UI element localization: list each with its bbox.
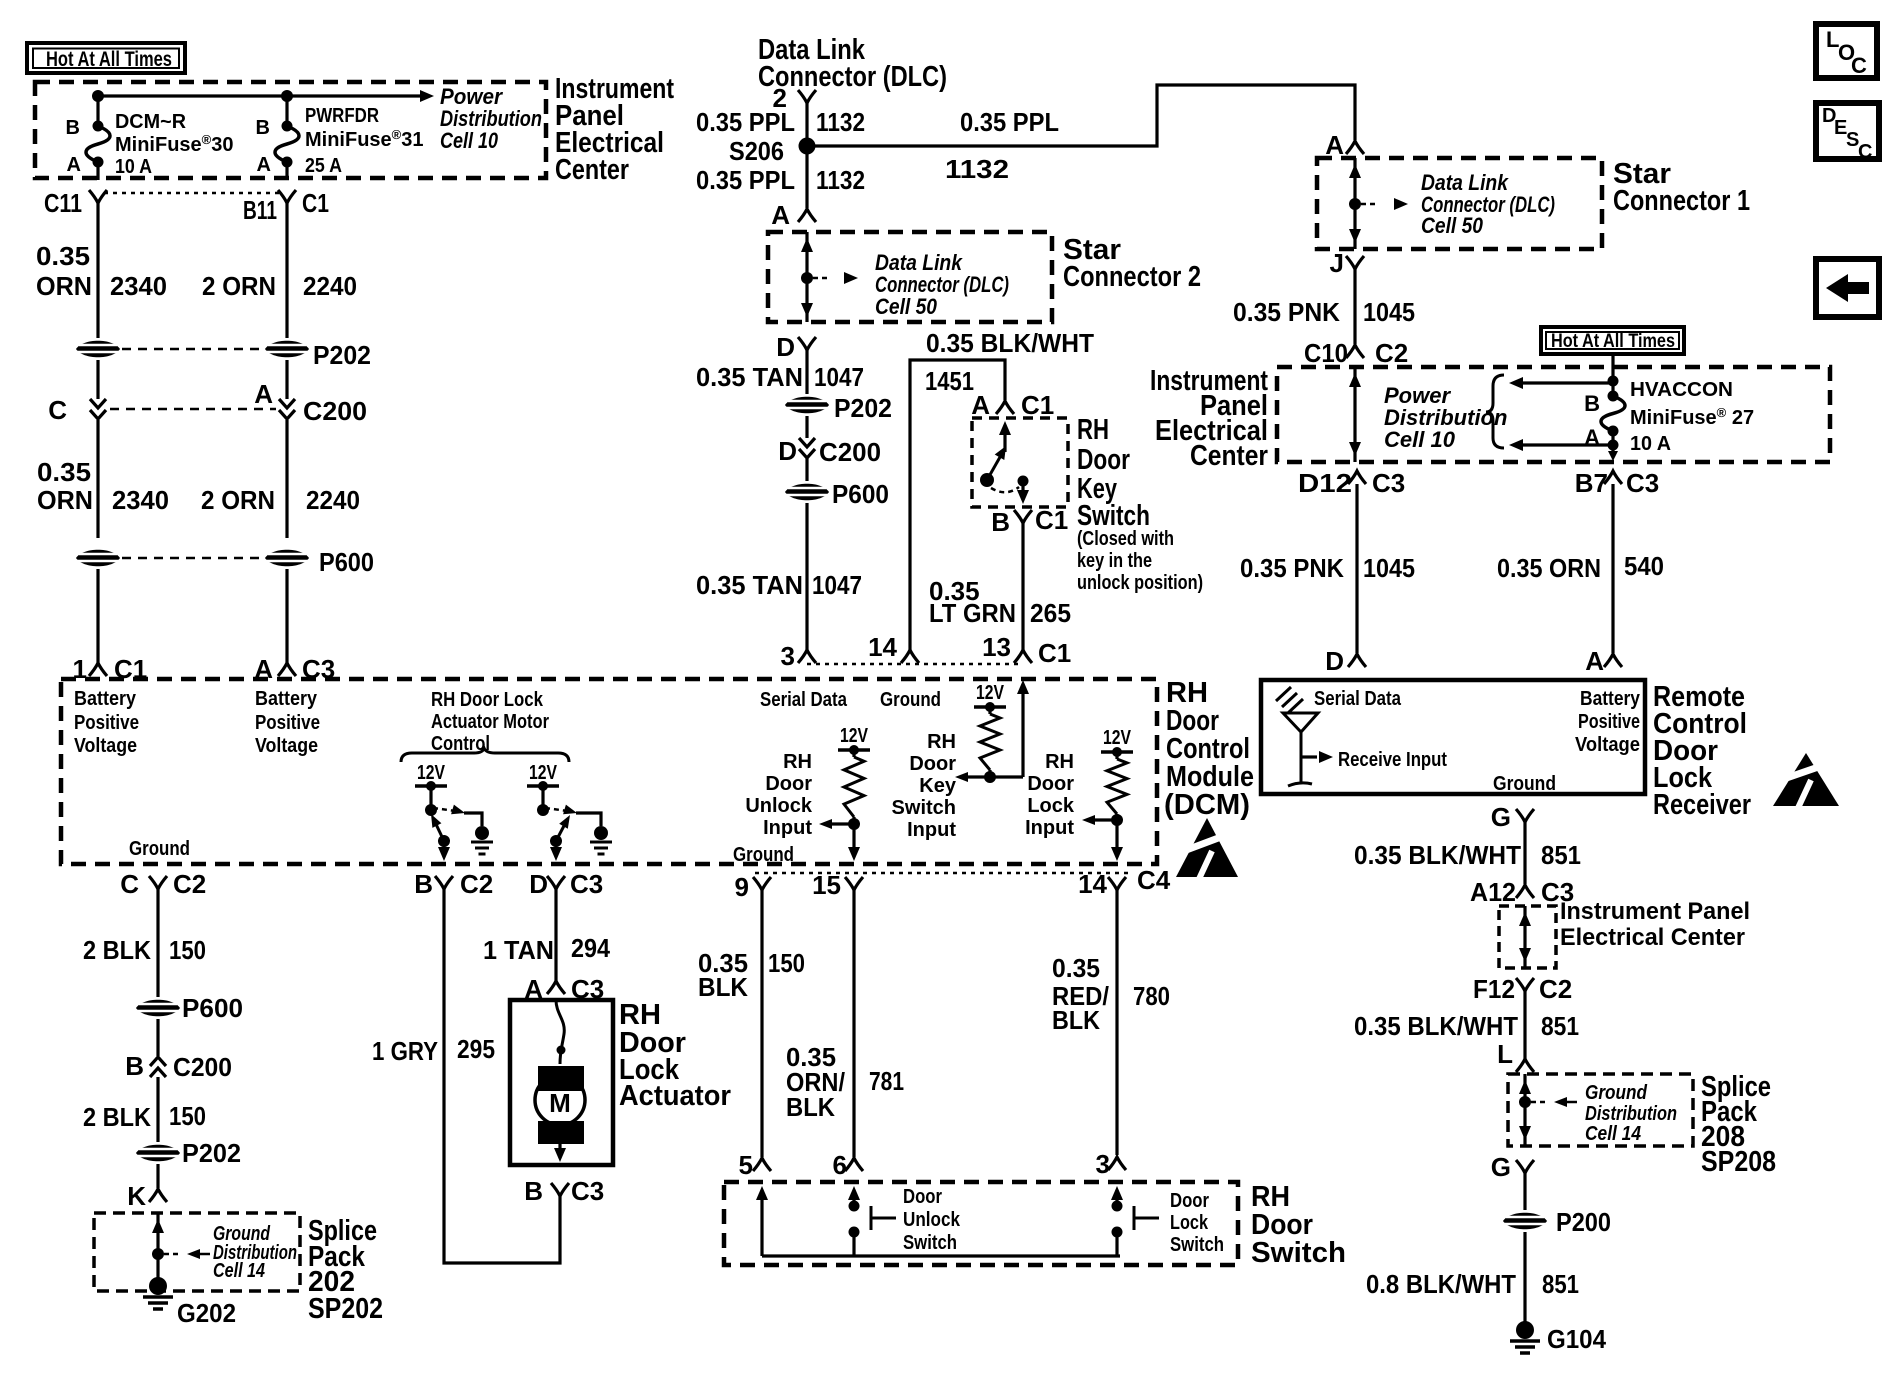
svg-text:0.35 PPL: 0.35 PPL	[696, 165, 795, 195]
svg-text:Switch: Switch	[1251, 1237, 1346, 1269]
svg-text:0.35: 0.35	[36, 241, 90, 271]
svg-text:A: A	[971, 390, 990, 420]
wire 2 BLK 150 (upper)	[156, 889, 159, 997]
wire 0.35 TAN 1047 (upper)	[805, 350, 808, 394]
wire 0.35 LT GRN 265	[1021, 523, 1024, 650]
grommet P600 (serial data)	[805, 458, 808, 481]
svg-text:key in the: key in the	[1077, 550, 1152, 572]
svg-text:C10: C10	[1304, 338, 1348, 368]
svg-text:P202: P202	[834, 393, 892, 423]
svg-text:C: C	[48, 395, 67, 425]
svg-text:851: 851	[1541, 1011, 1579, 1041]
svg-text:B: B	[125, 1051, 144, 1081]
actuator output wire	[558, 1144, 561, 1150]
svg-text:S206: S206	[729, 136, 784, 166]
svg-text:B: B	[991, 507, 1010, 537]
key switch input arrow	[968, 775, 990, 778]
svg-text:Positive: Positive	[74, 712, 139, 734]
svg-text:0.35 BLK/WHT: 0.35 BLK/WHT	[1354, 840, 1521, 870]
svg-text:P600: P600	[319, 547, 374, 577]
key switch contacts	[999, 421, 1011, 435]
svg-text:SP202: SP202	[308, 1293, 383, 1325]
pin 1 C1 of DCM	[89, 663, 107, 676]
pin C C2 of DCM	[149, 876, 167, 889]
grommet P202 (serial data)	[785, 397, 829, 414]
dashed link P600 pair	[122, 557, 263, 560]
svg-text:Receiver: Receiver	[1653, 789, 1751, 821]
wire 0.35 RED/BLK 780 from pin 14 C4	[1115, 890, 1118, 1155]
svg-text:Voltage: Voltage	[1575, 734, 1640, 756]
svg-text:A: A	[67, 154, 81, 176]
grommet P600 (ground)	[136, 1000, 180, 1017]
grommet P600 (left pair)	[76, 550, 120, 567]
connector C4 boundary dotted line below DCM	[755, 872, 1130, 875]
svg-text:Battery: Battery	[1580, 688, 1641, 710]
svg-text:G202: G202	[177, 1298, 236, 1328]
svg-text:Door: Door	[1170, 1190, 1209, 1212]
door unlock switch	[848, 1186, 860, 1200]
svg-text:25 A: 25 A	[305, 155, 342, 177]
svg-text:Actuator Motor: Actuator Motor	[431, 711, 549, 733]
svg-text:G104: G104	[1547, 1324, 1606, 1354]
svg-text:RH: RH	[1045, 751, 1074, 773]
svg-text:G: G	[1491, 802, 1511, 832]
unlock driver switch	[429, 786, 432, 806]
remote control door lock receiver box	[1261, 680, 1645, 794]
svg-text:1045: 1045	[1363, 553, 1415, 583]
svg-text:RH: RH	[783, 751, 812, 773]
svg-text:Voltage: Voltage	[255, 735, 318, 757]
svg-text:Ground: Ground	[129, 838, 190, 860]
svg-text:RH: RH	[927, 731, 956, 753]
svg-text:0.35 PNK: 0.35 PNK	[1240, 553, 1344, 583]
svg-text:A: A	[1585, 646, 1604, 676]
wire 0.35 PPL 1132 to star connector 1	[807, 85, 1355, 146]
svg-text:0.35 PPL: 0.35 PPL	[960, 107, 1059, 137]
svg-text:C4: C4	[1137, 865, 1171, 895]
wire 0.8 BLK/WHT 851	[1523, 1232, 1526, 1322]
lock input arrow	[1095, 818, 1117, 821]
svg-text:1132: 1132	[945, 154, 1009, 184]
brace over actuator motor control switches	[401, 748, 569, 762]
ESD sensitive symbol (receiver)	[1773, 753, 1839, 806]
svg-text:Center: Center	[555, 154, 629, 186]
ground symbol (lock driver)	[594, 826, 608, 840]
svg-text:Unlock: Unlock	[903, 1209, 961, 1231]
svg-text:DCM~R: DCM~R	[115, 111, 187, 133]
svg-text:ORN: ORN	[37, 485, 93, 515]
RH door switch box (dashed)	[724, 1182, 1238, 1265]
grommet P202 (left pair)	[76, 341, 120, 358]
svg-text:C1: C1	[1038, 638, 1071, 668]
svg-text:1 TAN: 1 TAN	[483, 935, 554, 965]
svg-text:Door: Door	[903, 1186, 942, 1208]
svg-text:(Closed with: (Closed with	[1077, 528, 1174, 550]
door switch common wire from pin 5	[756, 1186, 768, 1200]
svg-text:1045: 1045	[1363, 297, 1415, 327]
svg-text:B: B	[66, 117, 80, 139]
svg-text:ORN: ORN	[36, 271, 92, 301]
svg-text:A12: A12	[1470, 877, 1516, 907]
svg-text:1132: 1132	[816, 107, 865, 137]
hot at all times flag (left)	[27, 43, 185, 73]
lock driver lever	[556, 822, 566, 841]
svg-text:265: 265	[1030, 598, 1071, 628]
wire 0.35 ORN/BLK 781 from pin 15	[852, 890, 855, 1157]
antenna symbol	[1276, 687, 1291, 701]
svg-text:Serial Data: Serial Data	[760, 689, 848, 711]
svg-text:150: 150	[169, 1101, 206, 1131]
ESD sensitive symbol (DCM)	[1176, 818, 1238, 877]
svg-text:Cell 50: Cell 50	[875, 294, 938, 319]
svg-text:2240: 2240	[303, 271, 357, 301]
svg-text:C3: C3	[1372, 468, 1405, 498]
ground G202	[149, 1277, 167, 1295]
IPEC2 internal bus	[1353, 367, 1356, 462]
svg-text:A: A	[771, 200, 790, 230]
svg-text:Cell 10: Cell 10	[1384, 427, 1456, 452]
fuse DCM-R MiniFuse 30 10A	[96, 96, 99, 126]
svg-text:2340: 2340	[112, 485, 169, 515]
svg-text:C3: C3	[571, 1176, 604, 1206]
wire 2 ORN 2240 (lower)	[285, 420, 288, 538]
svg-text:K: K	[127, 1181, 146, 1211]
ground symbol (unlock driver)	[475, 826, 489, 840]
wire 0.35 PPL 1132 (lower)	[805, 146, 808, 208]
svg-text:Lock: Lock	[1027, 795, 1075, 817]
svg-text:2240: 2240	[306, 485, 360, 515]
wire 0.35 PNK 1045 (upper)	[1353, 269, 1356, 344]
svg-text:3: 3	[781, 641, 795, 671]
pin 9 of DCM	[753, 877, 771, 890]
lock driver switch	[541, 786, 544, 806]
svg-text:Cell 14: Cell 14	[1585, 1123, 1641, 1145]
svg-text:15: 15	[812, 870, 841, 900]
RH door key switch box (dashed)	[972, 418, 1068, 507]
connector boundary dotted line above DCM	[807, 663, 1023, 666]
wire unlock input to pin 15	[852, 824, 855, 849]
svg-text:0.35: 0.35	[1052, 953, 1100, 983]
svg-text:540: 540	[1624, 551, 1664, 581]
pin 13 C1 of DCM	[1014, 650, 1032, 663]
svg-text:12V: 12V	[840, 725, 869, 747]
svg-text:2340: 2340	[110, 271, 167, 301]
wire 0.35 ORN 2340 (lower)	[96, 420, 99, 538]
svg-text:781: 781	[869, 1066, 904, 1096]
wire 0.35 ORN 2340 (upper)	[96, 203, 99, 338]
wire 2 BLK 150 (lower)	[156, 1077, 159, 1142]
instrument panel electrical center box (top left, dashed)	[35, 82, 546, 178]
wire 0.35 TAN 1047 (lower)	[805, 503, 808, 650]
wire 0.35 BLK 150 from pin 9	[760, 890, 763, 1157]
svg-text:2 BLK: 2 BLK	[83, 935, 151, 965]
wire 1 TAN 294 from pin D C3	[554, 889, 557, 981]
svg-text:0.35 BLK/WHT: 0.35 BLK/WHT	[1354, 1011, 1518, 1041]
svg-text:Unlock: Unlock	[745, 795, 813, 817]
svg-text:RH Door Lock: RH Door Lock	[431, 689, 544, 711]
svg-text:12V: 12V	[529, 762, 558, 784]
svg-text:Door: Door	[765, 773, 812, 795]
grommet P200	[1503, 1213, 1547, 1230]
hot at all times flag (right)	[1541, 327, 1684, 354]
svg-text:3: 3	[1096, 1149, 1110, 1179]
svg-text:14: 14	[868, 632, 897, 662]
svg-text:2 BLK: 2 BLK	[83, 1102, 151, 1132]
junction node at fuse DCM-R feed	[92, 90, 104, 102]
svg-text:780: 780	[1133, 981, 1170, 1011]
dashed link C200	[110, 408, 276, 411]
svg-text:Cell 14: Cell 14	[213, 1260, 265, 1282]
svg-text:A: A	[1325, 130, 1344, 160]
svg-text:BLK: BLK	[1052, 1005, 1100, 1035]
connector C200 pin D	[805, 416, 808, 438]
svg-text:C2: C2	[460, 869, 493, 899]
svg-text:Door: Door	[1027, 773, 1074, 795]
svg-text:10 A: 10 A	[1630, 433, 1671, 455]
svg-text:Positive: Positive	[1578, 711, 1640, 733]
svg-text:C1: C1	[302, 188, 329, 218]
wire 0.35 PNK 1045 (lower)	[1355, 484, 1358, 653]
star connector 2 box (dashed)	[768, 232, 1052, 322]
svg-text:C200: C200	[819, 437, 881, 467]
svg-text:Switch: Switch	[892, 797, 956, 819]
svg-text:MiniFuse®31: MiniFuse®31	[305, 127, 424, 151]
svg-text:C2: C2	[173, 869, 206, 899]
RH door lock actuator box	[510, 1000, 613, 1165]
svg-text:Ground: Ground	[1585, 1082, 1648, 1104]
svg-text:851: 851	[1541, 840, 1581, 870]
svg-text:MiniFuse® 27: MiniFuse® 27	[1630, 405, 1754, 429]
RH door control module box (dashed)	[61, 679, 1157, 864]
pin K into splice pack 202	[156, 1164, 159, 1188]
wire 0.35 ORN 540	[1611, 484, 1614, 653]
svg-text:9: 9	[735, 872, 749, 902]
svg-text:A: A	[257, 154, 271, 176]
svg-text:0.35 TAN: 0.35 TAN	[696, 362, 803, 392]
svg-text:D: D	[776, 332, 795, 362]
connector C200 pin B	[156, 1019, 159, 1056]
splice pack 208 box (dashed)	[1508, 1074, 1693, 1146]
svg-text:Actuator: Actuator	[619, 1080, 731, 1112]
svg-text:Cell 10: Cell 10	[440, 128, 499, 153]
svg-text:B: B	[1584, 391, 1600, 416]
svg-text:Lock: Lock	[1170, 1212, 1209, 1234]
svg-text:Door: Door	[909, 753, 956, 775]
ground G104	[1516, 1321, 1534, 1339]
unlock driver lever	[434, 820, 444, 841]
svg-text:1047: 1047	[812, 570, 862, 600]
unlock input arrow	[832, 822, 854, 825]
svg-text:C2: C2	[1375, 338, 1408, 368]
svg-text:C3: C3	[570, 869, 603, 899]
wire G to P200	[1523, 1173, 1526, 1210]
pin D C3 of DCM	[547, 876, 565, 889]
wire to DCM pin 1	[96, 569, 99, 663]
IPEC3 internal bus	[1523, 906, 1526, 968]
wire to DCM pin A	[285, 569, 288, 663]
svg-text:(DCM): (DCM)	[1164, 789, 1250, 821]
receive input arrow	[1301, 755, 1317, 758]
svg-text:Input: Input	[907, 819, 956, 841]
pin 15 of DCM	[845, 877, 863, 890]
svg-text:A: A	[254, 379, 273, 409]
lock input resistor	[1115, 752, 1118, 759]
svg-text:P600: P600	[832, 479, 889, 509]
back arrow icon box	[1816, 259, 1879, 317]
svg-text:C11: C11	[44, 188, 82, 218]
svg-text:12V: 12V	[976, 682, 1005, 704]
svg-text:0.35 PNK: 0.35 PNK	[1233, 297, 1340, 327]
wire 0.35 BLK/WHT 851 (middle)	[1523, 991, 1526, 1059]
svg-text:G: G	[1491, 1152, 1511, 1182]
svg-text:Connector 2: Connector 2	[1063, 261, 1201, 293]
svg-text:Electrical Center: Electrical Center	[1560, 924, 1745, 951]
star connector 1 box (dashed)	[1317, 158, 1602, 249]
svg-text:1132: 1132	[816, 165, 865, 195]
svg-text:C: C	[120, 869, 139, 899]
svg-text:Door: Door	[1077, 444, 1130, 476]
splice pack 202 box (dashed)	[94, 1213, 300, 1291]
svg-text:0.35 TAN: 0.35 TAN	[696, 570, 803, 600]
svg-text:P202: P202	[313, 340, 371, 370]
svg-text:BLK: BLK	[786, 1092, 835, 1122]
svg-text:C200: C200	[303, 396, 367, 426]
svg-text:P200: P200	[1556, 1207, 1611, 1237]
svg-text:1 GRY: 1 GRY	[372, 1036, 438, 1066]
svg-text:B11: B11	[243, 195, 277, 225]
svg-text:0.35 BLK/WHT: 0.35 BLK/WHT	[926, 328, 1094, 358]
svg-text:D12: D12	[1298, 468, 1352, 498]
svg-text:D: D	[1325, 646, 1344, 676]
svg-text:P202: P202	[182, 1138, 241, 1168]
wire key switch input to pin 13	[990, 775, 1023, 778]
svg-text:Cell 50: Cell 50	[1421, 213, 1484, 238]
junction node at fuse PWRFDR feed	[281, 90, 293, 102]
wire lock input to pin 14 C4	[1115, 820, 1118, 849]
svg-text:C2: C2	[1539, 974, 1572, 1004]
svg-text:2 ORN: 2 ORN	[202, 271, 276, 301]
svg-text:D: D	[778, 436, 797, 466]
svg-text:Voltage: Voltage	[74, 735, 137, 757]
feed arrow B from HVACCON	[1521, 381, 1613, 384]
splice pack 208 internal bus	[1523, 1074, 1526, 1146]
wire 0.35 BLK/WHT 851 (upper)	[1523, 822, 1526, 884]
svg-text:12V: 12V	[1103, 727, 1132, 749]
instrument panel electrical center box 3 (dashed)	[1499, 906, 1556, 968]
svg-text:C1: C1	[1035, 505, 1068, 535]
svg-text:Instrument Panel: Instrument Panel	[1560, 898, 1750, 925]
svg-text:L: L	[1497, 1039, 1513, 1069]
svg-text:LT GRN: LT GRN	[929, 598, 1016, 628]
svg-text:1451: 1451	[925, 366, 974, 396]
svg-text:unlock position): unlock position)	[1077, 572, 1203, 594]
svg-text:C3: C3	[1626, 468, 1659, 498]
svg-text:Battery: Battery	[74, 688, 137, 710]
svg-text:C1: C1	[1021, 390, 1054, 420]
svg-text:Input: Input	[763, 817, 812, 839]
svg-text:M: M	[549, 1088, 571, 1118]
svg-text:J: J	[1330, 248, 1344, 278]
actuator internal wire with curve	[556, 1000, 564, 1064]
pin 3 of DCM (serial data)	[798, 650, 816, 663]
svg-text:851: 851	[1542, 1269, 1579, 1299]
svg-text:5: 5	[739, 1150, 753, 1180]
svg-text:295: 295	[457, 1034, 495, 1064]
svg-text:B: B	[256, 117, 270, 139]
instrument panel electrical center box 2 (dashed)	[1277, 367, 1830, 462]
svg-text:Distribution: Distribution	[1585, 1103, 1677, 1125]
svg-text:Input: Input	[1025, 817, 1074, 839]
wire 1 GRY 295 from pin B C2	[444, 889, 560, 1263]
svg-text:B: B	[414, 869, 433, 899]
svg-text:2 ORN: 2 ORN	[201, 485, 275, 515]
svg-text:Ground: Ground	[733, 844, 794, 866]
pin A C3 of DCM	[278, 663, 296, 676]
svg-text:PWRFDR: PWRFDR	[305, 105, 379, 127]
brace for power distribution feeds	[1486, 375, 1504, 448]
door lock switch	[1111, 1186, 1123, 1200]
svg-text:HVACCON: HVACCON	[1630, 379, 1733, 401]
svg-text:C: C	[1858, 141, 1872, 163]
svg-text:Switch: Switch	[1170, 1234, 1224, 1256]
pin A C3 of actuator	[547, 981, 565, 994]
svg-text:C200: C200	[173, 1052, 232, 1082]
svg-text:0.35: 0.35	[37, 457, 91, 487]
motor M symbol	[535, 1075, 585, 1125]
unlock input resistor	[852, 750, 855, 757]
svg-text:BLK: BLK	[698, 972, 748, 1002]
svg-text:Key: Key	[919, 775, 957, 797]
grommet P202 (ground)	[136, 1145, 180, 1162]
svg-text:Serial Data: Serial Data	[1314, 688, 1402, 710]
svg-text:10 A: 10 A	[115, 156, 152, 178]
svg-text:Receive Input: Receive Input	[1338, 749, 1447, 771]
svg-text:Positive: Positive	[255, 712, 320, 734]
svg-text:12V: 12V	[417, 762, 446, 784]
svg-text:13: 13	[982, 632, 1011, 662]
svg-text:Ground: Ground	[1493, 773, 1556, 795]
svg-text:F12: F12	[1473, 974, 1515, 1004]
svg-text:Connector 1: Connector 1	[1613, 185, 1750, 217]
svg-text:Ground: Ground	[880, 689, 941, 711]
feed wire from fuse DCM-R to power distribution	[98, 94, 420, 97]
svg-text:Switch: Switch	[903, 1232, 957, 1254]
svg-text:0.8 BLK/WHT: 0.8 BLK/WHT	[1366, 1269, 1516, 1299]
svg-text:MiniFuse®30: MiniFuse®30	[115, 132, 234, 156]
star connector 2 internal bus	[805, 232, 808, 322]
svg-text:D: D	[529, 869, 548, 899]
svg-text:P600: P600	[182, 993, 243, 1023]
svg-text:294: 294	[571, 933, 610, 963]
wire 2 ORN 2240 (upper)	[285, 203, 288, 338]
svg-text:150: 150	[768, 948, 805, 978]
svg-text:SP208: SP208	[1701, 1146, 1776, 1178]
svg-text:RH: RH	[1077, 414, 1109, 446]
svg-text:Center: Center	[1190, 440, 1268, 472]
fuse PWRFDR MiniFuse 31 25A	[285, 96, 288, 126]
pin 14 C4 of DCM	[1108, 877, 1126, 890]
wire 0.35 BLK/WHT 1451 key switch feed	[910, 360, 1005, 650]
DESC icon box	[1816, 103, 1879, 159]
svg-text:Battery: Battery	[255, 688, 318, 710]
fuse HVACCON MiniFuse 27 10A	[1611, 354, 1614, 396]
svg-text:14: 14	[1078, 869, 1107, 899]
wire 0.35 PPL 1132 (upper)	[805, 103, 808, 146]
svg-text:A: A	[1584, 425, 1600, 450]
dashed link P202 pair	[122, 348, 263, 351]
svg-text:Hot At All Times: Hot At All Times	[1551, 331, 1675, 352]
splice pack 202 internal bus	[156, 1213, 159, 1283]
